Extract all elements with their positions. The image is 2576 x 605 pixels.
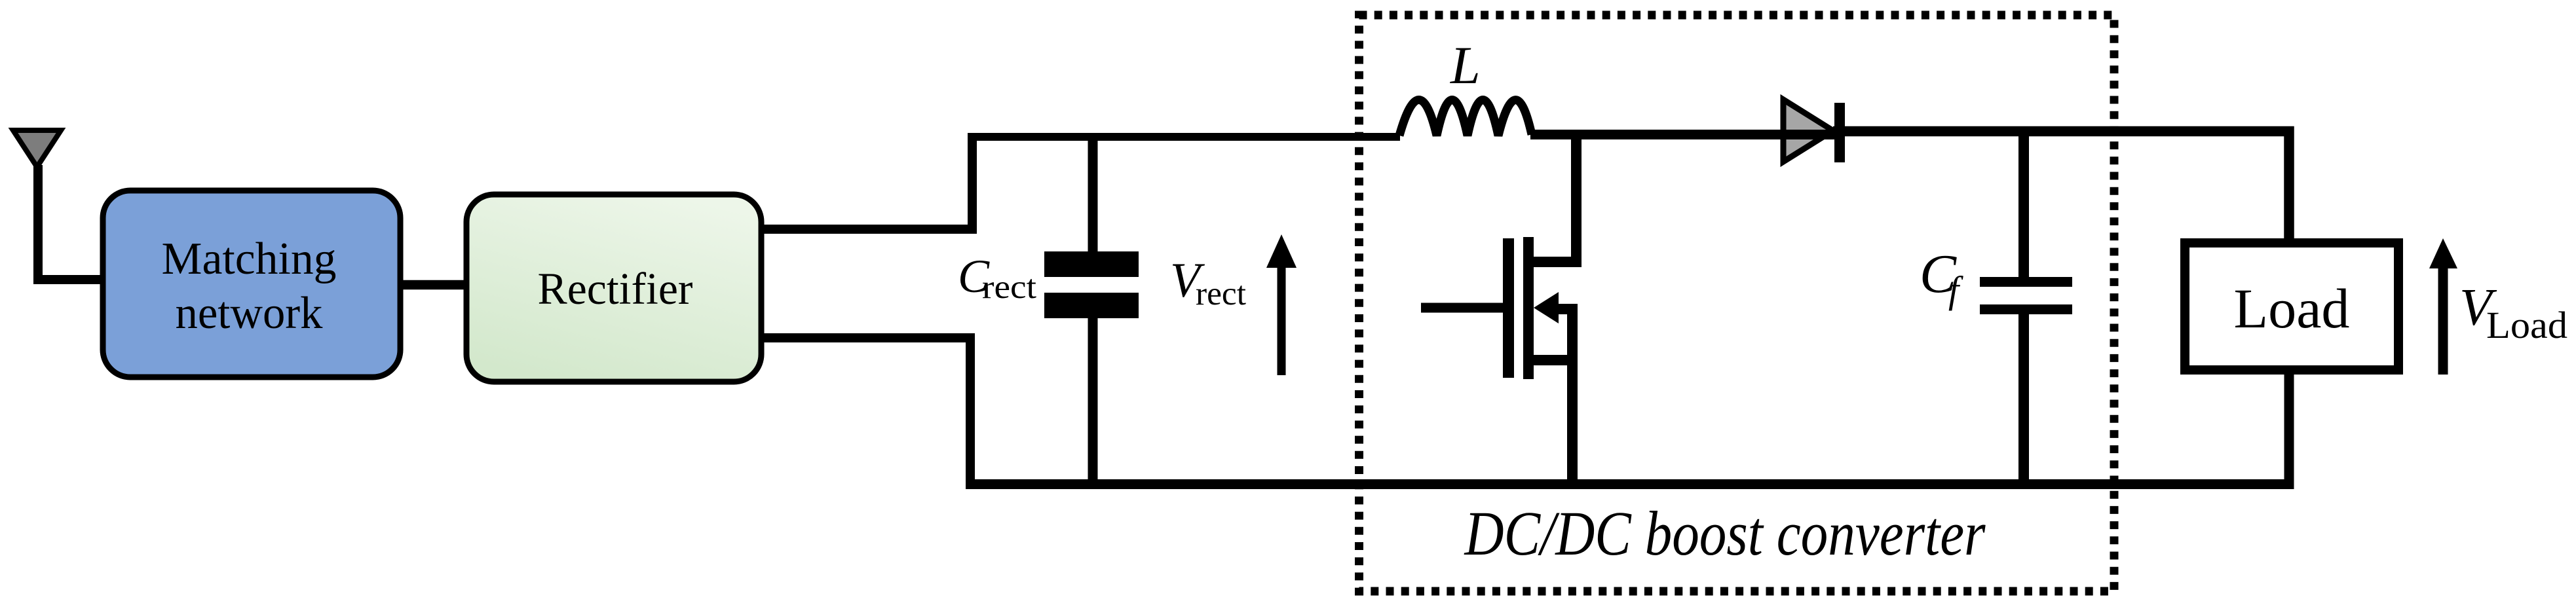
transistor Q1 source bar connection <box>1534 355 1572 365</box>
transistor Q1 body arrow <box>1534 292 1559 323</box>
svg-text:f: f <box>1948 268 1963 311</box>
matching network box <box>103 191 400 377</box>
wire matching to rectifier <box>400 280 466 290</box>
inductor L <box>1399 100 1532 136</box>
wire top rail middle segment <box>1530 130 1842 139</box>
transistor Q1 source lead <box>1559 309 1572 485</box>
capacitor C_rect plates <box>1044 251 1139 277</box>
wire rectifier top output to top rail <box>761 137 972 229</box>
capacitor C_f top lead <box>2018 131 2029 277</box>
svg-text:DC/DC boost converter: DC/DC boost converter <box>1464 498 1986 568</box>
svg-text:L: L <box>1450 35 1481 95</box>
capacitor C_rect top lead <box>1088 137 1098 251</box>
wire antenna lead <box>38 165 100 280</box>
capacitor C_f plates <box>1980 277 2072 287</box>
svg-text:Load: Load <box>2486 304 2567 346</box>
diode D1 anode triangle <box>1783 100 1833 162</box>
transistor Q1 channel bar <box>1523 237 1534 379</box>
load box <box>2185 243 2398 370</box>
svg-text:network: network <box>176 288 323 339</box>
wire bottom rail <box>966 375 2289 485</box>
wire rectifier bottom output to bottom rail <box>761 338 970 485</box>
svg-text:Load: Load <box>2234 277 2350 340</box>
rectifier box <box>466 194 761 382</box>
capacitor C_f bottom lead <box>2018 314 2029 485</box>
dotted box DC/DC boost converter <box>1359 15 2115 591</box>
svg-text:rect: rect <box>1196 276 1246 312</box>
capacitor C_rect bottom lead <box>1088 318 1098 485</box>
antenna <box>13 130 61 167</box>
diode D1 cathode bar <box>1834 103 1845 162</box>
arrow V_Load <box>2438 265 2448 375</box>
svg-text:Matching: Matching <box>162 234 337 284</box>
svg-text:rect: rect <box>982 269 1036 306</box>
wire top rail left segment <box>968 133 1400 141</box>
transistor Q1 gate bar <box>1503 238 1514 378</box>
svg-text:Rectifier: Rectifier <box>538 264 693 314</box>
arrow V_rect <box>1278 262 1286 375</box>
transistor Q1 MOSFET drain lead <box>1534 135 1576 262</box>
transistor Q1 gate lead <box>1421 303 1503 313</box>
wire top rail right segment <box>1833 132 2289 239</box>
